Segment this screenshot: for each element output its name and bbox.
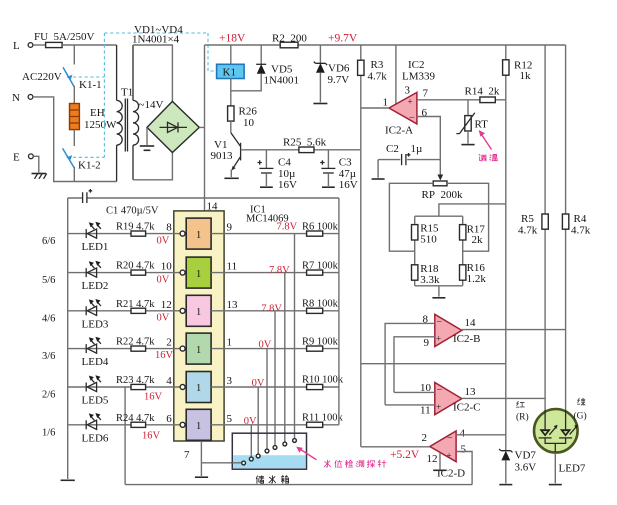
svg-text:2: 2 xyxy=(166,337,172,349)
wire row5 to ground bus xyxy=(124,387,126,485)
svg-text:−: − xyxy=(437,385,443,396)
svg-text:K1: K1 xyxy=(223,67,236,79)
svg-text:L: L xyxy=(13,40,20,52)
svg-text:4: 4 xyxy=(166,375,172,387)
svg-text:1: 1 xyxy=(196,421,201,432)
svg-text:~14V: ~14V xyxy=(139,99,164,111)
svg-text:−: − xyxy=(409,113,415,124)
op-amp IC2-A xyxy=(383,45,429,137)
svg-text:VD7: VD7 xyxy=(515,450,537,462)
svg-text:5/6: 5/6 xyxy=(42,275,55,286)
svg-text:3/6: 3/6 xyxy=(42,351,55,362)
svg-text:LM339: LM339 xyxy=(402,71,436,83)
svg-text:7: 7 xyxy=(423,88,429,100)
svg-text:+9.7V: +9.7V xyxy=(328,33,358,45)
inverter gate 4 xyxy=(180,333,211,364)
wire row2 output pin 11 xyxy=(211,261,339,276)
wire K1-1 to EH xyxy=(73,86,75,104)
svg-text:LED6: LED6 xyxy=(82,432,109,444)
svg-text:K1-2: K1-2 xyxy=(78,160,101,172)
wire bridge + output up to +18V rail and down to 16V rail xyxy=(199,45,204,211)
LED6 xyxy=(86,413,101,429)
label VD1~VD4 xyxy=(132,24,183,46)
svg-text:AC220V: AC220V xyxy=(22,71,62,83)
heater EH 1250W xyxy=(70,104,118,132)
wire inner box tap to R12 line xyxy=(439,204,506,216)
bridge rectifier VD1~VD4 xyxy=(147,101,199,152)
svg-text:+: + xyxy=(408,97,413,107)
svg-text:16V: 16V xyxy=(144,392,163,403)
ground at LED7 xyxy=(549,484,562,486)
resistor R21 4.7k xyxy=(116,299,172,324)
wire IC2-B pin 9 xyxy=(394,337,435,393)
resistor R9 100k xyxy=(302,336,339,351)
thermistor RT xyxy=(456,100,488,144)
probe wire row4 xyxy=(266,349,268,450)
svg-text:1N4001×4: 1N4001×4 xyxy=(132,34,180,46)
row 1 : 6/6 LED1 xyxy=(42,234,180,254)
resistor R3 4.7k xyxy=(358,45,388,150)
svg-text:2/6: 2/6 xyxy=(42,390,55,401)
wire RP outer loop xyxy=(389,183,488,251)
water tank 储水箱 xyxy=(232,433,306,469)
svg-text:(R): (R) xyxy=(516,412,529,423)
wire IC2-A pin 7 to R14 xyxy=(417,99,506,101)
svg-text:10: 10 xyxy=(243,117,255,129)
svg-text:6/6: 6/6 xyxy=(42,236,55,247)
capacitor C1 470u/5V xyxy=(83,189,159,217)
resistor R15 510 xyxy=(412,223,440,246)
resistor R8 100k xyxy=(302,299,339,314)
resistor R4 4.7k xyxy=(562,45,590,430)
wire IC2-B output 14 xyxy=(462,329,566,331)
ground at VD7 xyxy=(499,484,512,486)
resistor R24 4.7k xyxy=(116,413,172,442)
probe wire row2 xyxy=(284,273,286,443)
resistor R11 100k xyxy=(302,413,343,428)
zener VD6 9.7V xyxy=(314,45,350,102)
svg-text:C3: C3 xyxy=(339,157,352,169)
svg-text:11: 11 xyxy=(420,405,431,417)
svg-text:3: 3 xyxy=(405,85,411,97)
wire IC2-A output pin 1 xyxy=(361,107,389,109)
relay contact K1-2 xyxy=(63,148,101,171)
svg-text:1N4001: 1N4001 xyxy=(264,75,299,87)
resistor R23 4.7k xyxy=(116,375,172,403)
wire row5 output pin 3 xyxy=(211,375,339,389)
dashed link top horizontal xyxy=(104,32,208,34)
row 4 : 3/6 LED4 xyxy=(42,349,180,369)
svg-text:+: + xyxy=(447,451,452,461)
svg-text:LED3: LED3 xyxy=(82,318,109,330)
svg-text:4: 4 xyxy=(460,428,466,440)
ground at V1 emitter xyxy=(224,177,238,179)
resistor R10 100k xyxy=(302,375,344,390)
LED1 xyxy=(86,222,101,238)
svg-text:1: 1 xyxy=(196,345,201,356)
svg-text:R3: R3 xyxy=(371,59,384,71)
comparator IC2-D xyxy=(422,428,467,480)
resistor R6 100k xyxy=(302,221,339,236)
svg-text:C4: C4 xyxy=(278,157,291,169)
wire N down and along bottom xyxy=(33,97,117,182)
wire IC2-B pin 8 xyxy=(385,323,435,405)
svg-text:5: 5 xyxy=(227,413,233,425)
terminal N xyxy=(12,92,33,104)
relay contact K1-1 xyxy=(22,67,102,91)
svg-text:10: 10 xyxy=(161,261,173,273)
resistor R18 3.3k xyxy=(412,263,440,286)
svg-text:LED2: LED2 xyxy=(82,280,109,292)
svg-text:4/6: 4/6 xyxy=(42,313,55,324)
svg-text:9013: 9013 xyxy=(211,150,234,162)
resistor R14 2k xyxy=(465,86,500,103)
comparator IC2-C xyxy=(420,382,481,417)
resistor R19 4.7k xyxy=(116,222,172,247)
svg-text:+: + xyxy=(436,334,441,344)
label 调温 (CJK) xyxy=(479,154,498,161)
svg-text:EH: EH xyxy=(90,107,105,119)
svg-text:(G): (G) xyxy=(574,411,587,422)
svg-text:12: 12 xyxy=(161,299,172,311)
LED5 xyxy=(86,375,101,391)
resistor R5 4.7k xyxy=(518,45,548,430)
ground at C4 xyxy=(260,186,273,188)
svg-text:LED7: LED7 xyxy=(559,463,586,475)
svg-text:RT: RT xyxy=(475,119,489,131)
LED2 xyxy=(86,261,101,277)
wire secondary bottom to bridge xyxy=(133,153,172,180)
svg-text:1: 1 xyxy=(383,97,389,109)
ground at divider xyxy=(432,286,445,298)
wire E to ground xyxy=(33,156,39,172)
svg-text:14: 14 xyxy=(465,317,477,329)
LED4 xyxy=(86,337,101,353)
terminal L xyxy=(13,40,33,52)
svg-text:7.8V: 7.8V xyxy=(269,265,290,276)
dashed link vertical to K1 coil xyxy=(208,33,217,71)
ground at VD6 xyxy=(313,103,327,105)
svg-text:1k: 1k xyxy=(520,70,532,82)
svg-text:16V: 16V xyxy=(278,179,297,191)
svg-text:R5: R5 xyxy=(521,213,534,225)
probe wire row6 xyxy=(250,425,252,457)
wire EH to K1-2 xyxy=(73,130,75,146)
+18V rail xyxy=(205,44,566,46)
wire divider inner box xyxy=(415,216,463,286)
inverter gate 1 xyxy=(180,218,211,249)
wire IC2-D pin 4 xyxy=(456,434,506,436)
wire IC2-A pin 6 down to RP wiper xyxy=(417,117,440,160)
svg-text:7.8V: 7.8V xyxy=(277,221,298,232)
svg-text:−: − xyxy=(437,317,443,328)
ground bus bottom xyxy=(125,484,472,486)
svg-text:R26: R26 xyxy=(239,106,258,118)
svg-text:0V: 0V xyxy=(244,416,257,427)
svg-text:IC2-D: IC2-D xyxy=(437,468,465,480)
inverter gate 2 xyxy=(180,257,211,288)
wire IC2-C pin 10 xyxy=(394,391,435,393)
svg-text:IC2-B: IC2-B xyxy=(453,333,481,345)
svg-text:9: 9 xyxy=(227,222,233,234)
svg-text:E: E xyxy=(13,152,20,164)
svg-text:T1: T1 xyxy=(121,87,133,99)
svg-text:LED5: LED5 xyxy=(82,395,109,407)
svg-text:1: 1 xyxy=(196,307,201,318)
svg-text:1.2k: 1.2k xyxy=(467,273,487,285)
pull-up bus for R6-R11 xyxy=(338,198,340,425)
svg-text:IC2: IC2 xyxy=(408,59,425,71)
wire IC2-D output 2 xyxy=(361,150,430,447)
svg-text:0V: 0V xyxy=(157,274,170,285)
ground (earth) at E xyxy=(32,174,47,179)
inverter gate 5 xyxy=(180,372,211,403)
probe wire row1 xyxy=(294,234,296,439)
wire pin7 to tank common probe xyxy=(201,462,241,464)
capacitor C2 1u xyxy=(378,143,440,178)
svg-text:IC2-A: IC2-A xyxy=(385,125,413,137)
svg-text:1: 1 xyxy=(227,337,233,349)
pointer 水位检测探针 arrow xyxy=(296,447,316,460)
ground at left bus xyxy=(61,479,75,481)
svg-text:FU 5A/250V: FU 5A/250V xyxy=(34,31,95,43)
probe wire row5 xyxy=(257,387,259,454)
16V supply rail xyxy=(68,197,339,199)
svg-text:8: 8 xyxy=(166,222,172,234)
dashed link K1-1 xyxy=(73,76,104,78)
svg-text:5: 5 xyxy=(461,444,467,456)
water level probes xyxy=(242,439,297,465)
ground at C3 xyxy=(322,186,335,188)
dashed link vertical left xyxy=(103,33,105,157)
svg-text:4.7k: 4.7k xyxy=(368,71,388,83)
pointer 调温 (temperature set) xyxy=(479,130,492,150)
resistor R2 200 xyxy=(272,33,307,48)
inverter gate 6 xyxy=(180,409,211,440)
svg-text:12: 12 xyxy=(427,453,438,465)
svg-text:LED4: LED4 xyxy=(82,356,109,368)
wire comparator reference node xyxy=(361,363,506,365)
row 6 : 1/6 LED6 xyxy=(42,425,180,445)
svg-text:9.7V: 9.7V xyxy=(328,74,350,86)
svg-text:9: 9 xyxy=(424,337,430,349)
LED7 bicolor indicator xyxy=(534,409,586,483)
svg-text:+5.2V: +5.2V xyxy=(390,449,420,461)
wire row6 output pin 5 xyxy=(211,413,339,427)
wire IC2-D pin 5 xyxy=(456,452,472,485)
svg-text:N: N xyxy=(12,92,20,104)
dashed link K1-2 xyxy=(73,156,104,158)
svg-text:R14 2k: R14 2k xyxy=(465,86,500,98)
svg-text:+: + xyxy=(436,402,441,412)
svg-text:14: 14 xyxy=(207,201,219,213)
LED3 xyxy=(86,299,101,315)
svg-text:R4: R4 xyxy=(574,213,587,225)
capacitor C3 47u 16V xyxy=(320,150,358,191)
wire secondary top to bridge xyxy=(133,45,172,101)
svg-text:0V: 0V xyxy=(157,313,170,324)
svg-text:16V: 16V xyxy=(155,350,174,361)
zener VD7 3.6V xyxy=(499,449,536,483)
svg-text:RP 200k: RP 200k xyxy=(422,189,463,201)
svg-text:0V: 0V xyxy=(157,235,170,246)
svg-text:1: 1 xyxy=(196,230,201,241)
terminal E xyxy=(13,152,33,164)
row 2 : 5/6 LED2 xyxy=(42,273,180,293)
svg-text:1/6: 1/6 xyxy=(42,427,55,438)
svg-text:0V: 0V xyxy=(259,340,272,351)
svg-text:+18V: +18V xyxy=(219,33,246,45)
resistor R22 4.7k xyxy=(116,337,174,362)
fuse FU 5A/250V xyxy=(33,31,95,48)
svg-text:1µ: 1µ xyxy=(411,143,423,155)
svg-text:IC2-C: IC2-C xyxy=(453,402,481,414)
row 5 : 2/6 LED5 xyxy=(42,387,180,407)
svg-text:3.3k: 3.3k xyxy=(420,274,440,286)
inverter gate 3 xyxy=(180,295,211,326)
svg-text:13: 13 xyxy=(227,299,239,311)
svg-text:6: 6 xyxy=(166,413,172,425)
resistor R25 5.6k xyxy=(241,137,361,153)
comparator IC2-B xyxy=(423,314,481,350)
resistor R20 4.7k xyxy=(116,261,172,286)
wire L to T1 xyxy=(62,44,116,46)
wire row1 output pin 9 xyxy=(211,221,339,233)
svg-text:LED1: LED1 xyxy=(82,241,109,253)
svg-text:13: 13 xyxy=(465,386,477,398)
svg-text:−: − xyxy=(447,433,453,444)
wire junction down to K1-1 xyxy=(73,45,75,65)
svg-text:4.7k: 4.7k xyxy=(518,225,538,237)
svg-text:C1 470µ/5V: C1 470µ/5V xyxy=(106,206,159,217)
ground at RT xyxy=(461,144,474,146)
transistor V1 9013 xyxy=(211,133,241,177)
svg-text:16V: 16V xyxy=(339,179,358,191)
wire K1-2 to bottom xyxy=(73,167,75,182)
IC1 pin 7 lead xyxy=(184,441,201,476)
svg-text:VD6: VD6 xyxy=(328,63,350,75)
ground at IC1 pin 7 xyxy=(195,476,208,478)
resistor R17 2k xyxy=(460,224,486,247)
svg-text:3: 3 xyxy=(227,375,233,387)
transformer T1 xyxy=(117,45,139,182)
svg-text:1250W: 1250W xyxy=(84,119,117,131)
probe wire row3 xyxy=(274,311,276,446)
svg-text:K1-1: K1-1 xyxy=(79,79,102,91)
svg-text:7.8V: 7.8V xyxy=(261,303,282,314)
svg-text:4.7k: 4.7k xyxy=(571,225,591,237)
svg-text:1: 1 xyxy=(196,269,201,280)
IC2 label xyxy=(402,59,436,83)
svg-text:1: 1 xyxy=(196,383,201,394)
svg-text:7: 7 xyxy=(184,449,190,461)
ground at bridge left vertex xyxy=(140,127,154,150)
svg-text:2: 2 xyxy=(422,432,428,444)
svg-text:16V: 16V xyxy=(142,431,161,442)
IC1 MC14069 package xyxy=(174,201,289,442)
label 水位检测探针 (CJK) xyxy=(324,460,386,467)
wire row3 output pin 13 xyxy=(211,299,339,315)
label green (G) xyxy=(574,398,587,421)
svg-text:11: 11 xyxy=(227,261,238,273)
wire IC2-C output 13 xyxy=(462,397,545,399)
svg-text:C2: C2 xyxy=(386,143,399,155)
resistor R7 100k xyxy=(302,260,339,275)
label 储水箱 (CJK) xyxy=(256,476,288,484)
ground at IC2-D pin 12 xyxy=(433,453,446,471)
capacitor C4 10u 16V xyxy=(258,150,298,191)
wire IC2-C pin 11 xyxy=(385,404,435,406)
ground at C2 xyxy=(372,178,385,180)
relay coil K1 xyxy=(217,45,245,106)
resistor R26 10 xyxy=(228,106,258,133)
diode VD5 1N4001 xyxy=(231,45,299,91)
svg-text:510: 510 xyxy=(420,234,437,246)
row 3 : 4/6 LED3 xyxy=(42,311,180,331)
left cathode bus xyxy=(67,198,69,479)
svg-text:3.6V: 3.6V xyxy=(515,462,537,474)
svg-text:2k: 2k xyxy=(472,234,484,246)
potentiometer RP 200k xyxy=(422,160,463,201)
resistor R12 1k xyxy=(503,45,533,451)
label red (R) xyxy=(516,401,529,422)
wire row4 output pin 1 xyxy=(211,337,339,351)
resistor R16 1.2k xyxy=(460,262,487,285)
